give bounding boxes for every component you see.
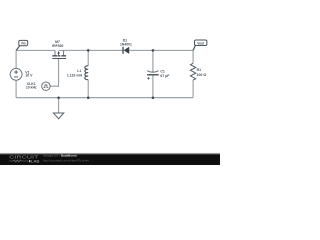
inductor L1 [85,66,88,80]
svg-text:10 kHz: 10 kHz [26,85,37,89]
diode D1 (1N4001, cathode left) [122,47,129,54]
svg-text:rwangjz123 / BuckBoost: rwangjz123 / BuckBoost [43,154,77,158]
svg-text:R1: R1 [197,68,202,72]
svg-text:LAB: LAB [31,159,40,164]
transistor M7 (IRF530 NMOS, drain left / source right / gate down) [52,50,66,58]
ground [53,98,63,119]
svg-text:100 Ω: 100 Ω [197,73,207,77]
watermark bar [0,155,220,165]
node Vin flag [16,40,27,50]
wire L1 branch upper [87,50,89,65]
wire right rail upper (Vout corner to R1) [192,50,194,63]
svg-text:10 V: 10 V [25,74,33,78]
wire left rail upper (corner to V1 top) [15,50,17,68]
wire top rail mid (MOSFET source to diode cathode) [59,49,123,51]
svg-text:Vin: Vin [21,42,26,46]
svg-text:D1: D1 [123,38,127,42]
wire C1 branch upper [152,50,154,71]
clock source CLK1 [42,82,50,90]
junction ground [57,96,60,99]
junction C1 top [152,49,155,52]
junction L1 top [87,49,90,52]
node Vout flag [193,40,207,50]
CircuitLab logo [9,155,40,164]
wire L1 branch lower [87,80,89,98]
wire right rail lower (R1 to bottom rail) [192,80,194,98]
junction L1 bottom [87,96,90,99]
wire C1 branch lower [152,75,154,98]
resistor R1 [190,63,195,80]
svg-text:Vout: Vout [197,42,205,46]
svg-text:C1: C1 [160,70,165,74]
wire top rail right (diode anode to Vout corner) [129,49,193,51]
wire MOSFET gate to CLK1 [50,59,59,86]
svg-text:IRF530: IRF530 [52,44,63,48]
svg-text:67 µF: 67 µF [160,74,170,78]
svg-text:1N4001: 1N4001 [120,43,132,47]
voltage source V1 [10,68,22,80]
svg-text:1.119 mH: 1.119 mH [67,73,83,77]
svg-text:http://circuitlab.com/c/4wy47f: http://circuitlab.com/c/4wy47fLm/rev [43,159,90,163]
wire bottom rail [16,97,193,99]
junction C1 bottom [152,96,155,99]
wire top rail left (Vin to MOSFET drain) [16,49,55,51]
capacitor C1 (polarized, curved plate up) [147,71,159,80]
wire left rail lower (V1 bottom to bottom rail) [15,80,17,98]
